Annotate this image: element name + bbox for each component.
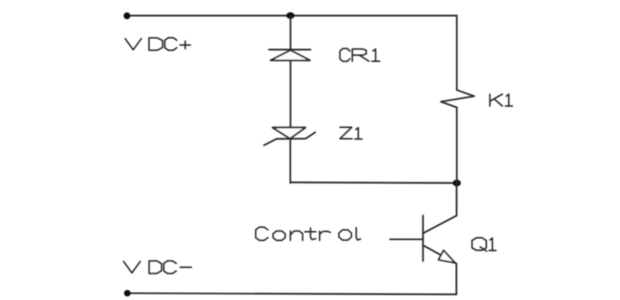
wire control to base (390, 238, 423, 240)
wire Z1 to node (289, 139, 291, 183)
wire VDC+ top rail (127, 15, 457, 17)
node collector junction (453, 180, 461, 187)
diode CR1 (269, 50, 311, 61)
wire CR1 to Z1 (290, 60, 292, 127)
relay coil K1 (441, 90, 474, 107)
wire top rail to K1 (456, 16, 458, 90)
wire node to transistor horizontal (290, 181, 457, 184)
terminal dot VDC- (124, 290, 131, 297)
transistor Q1 (423, 216, 457, 264)
node top junction (286, 12, 294, 19)
wire top rail to CR1 (290, 16, 292, 50)
label VDC- (124, 261, 192, 274)
label K1 (490, 94, 513, 106)
wire node to collector (456, 183, 458, 216)
label CR1 (340, 49, 380, 62)
zener diode Z1 (264, 128, 315, 146)
wire emitter to bottom rail (455, 264, 457, 295)
terminal dot VDC+ (124, 12, 131, 19)
label VDC+ (125, 38, 190, 51)
label Q1 (472, 238, 496, 251)
wire K1 to node (456, 107, 458, 183)
wire VDC- bottom rail (127, 293, 456, 294)
label Control (256, 227, 361, 240)
label Z1 (340, 127, 362, 139)
